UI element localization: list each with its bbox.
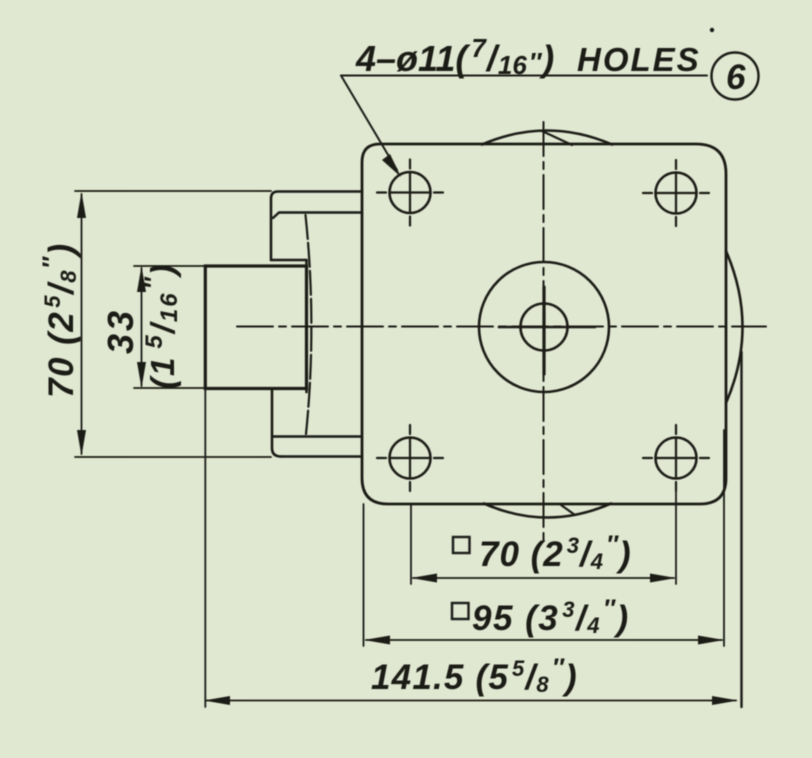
hole bottom-left — [390, 438, 431, 479]
central bore circle — [521, 304, 568, 351]
mounting plate outline — [362, 144, 726, 504]
central solid cross horizontal — [499, 326, 595, 329]
scan speck dot — [710, 28, 714, 32]
central solid cross vertical — [542, 287, 545, 374]
dim 70 left: top extension — [75, 190, 271, 192]
dim 70 left: line — [81, 194, 83, 454]
arrow dim141.5 left — [204, 696, 230, 705]
side view: step line — [271, 259, 307, 261]
arrow dim33 top — [137, 266, 146, 292]
wheel bottom arc — [484, 504, 611, 518]
arrow dim95 left — [364, 636, 390, 645]
underline of holes note — [341, 75, 707, 77]
side view: bottom flange upper line — [273, 435, 362, 437]
wheel right arc — [726, 251, 743, 403]
hole top-right crosshair — [643, 160, 709, 226]
dim 70 bottom: line — [413, 577, 674, 579]
side view: bottom flange lower line — [281, 455, 362, 458]
leader line for holes note — [341, 76, 397, 171]
hole top-right — [656, 173, 697, 214]
dim 95: right extension — [723, 430, 725, 646]
hole bottom-left crosshair — [377, 425, 443, 491]
dim 33: top extension — [134, 265, 205, 267]
side view: wheel silhouette arc — [306, 215, 312, 434]
arrow dim95 right — [698, 636, 724, 645]
arrow dim33 bottom — [137, 362, 146, 388]
arrow dim70-left bottom — [77, 430, 86, 456]
hole top-left — [390, 172, 431, 213]
side view: hub rectangle — [205, 266, 306, 389]
dim 70 bottom: left extension — [410, 504, 412, 584]
dim 141.5: line — [206, 700, 736, 702]
arrow dim70-bottom left — [411, 574, 437, 583]
square symbol for 95 — [452, 603, 469, 619]
balloon circle 6 — [712, 53, 759, 100]
wheel top arc — [482, 131, 612, 145]
dim 95: left extension — [363, 504, 365, 646]
arrow dim70-left top — [77, 192, 86, 218]
svg-text:6: 6 — [726, 58, 746, 97]
arrow dim141.5 right — [712, 696, 738, 705]
dim 70 left: bottom extension — [75, 456, 271, 458]
side view: hub right edge — [305, 260, 308, 392]
wheel bottom inner diagonal — [561, 505, 575, 515]
vertical centerline — [543, 122, 545, 546]
dim 33: bottom extension — [134, 387, 205, 389]
dim 95: line — [366, 639, 722, 641]
side view: hub left edge extension line — [204, 389, 206, 708]
hole top-left crosshair — [377, 160, 443, 226]
dim 33: line — [141, 268, 143, 386]
wheel right edge extension line — [740, 352, 742, 707]
arrow leader tip — [382, 154, 401, 177]
hole bottom-right crosshair — [643, 425, 709, 491]
arrow dim70-bottom right — [650, 574, 676, 583]
svg-text:33: 33 — [100, 308, 141, 354]
square symbol for 70 — [453, 537, 470, 553]
central boss outer circle — [479, 262, 609, 392]
side view: top flange inner line — [273, 213, 362, 219]
dim 70 bottom: right extension — [675, 485, 677, 584]
wheel top inner diagonal — [542, 131, 572, 145]
side view: top flange outer line — [271, 192, 362, 261]
svg-text:HOLES: HOLES — [577, 41, 701, 78]
hole bottom-right — [656, 438, 697, 479]
side view: lower left edge — [272, 390, 281, 457]
horizontal centerline — [237, 326, 766, 328]
